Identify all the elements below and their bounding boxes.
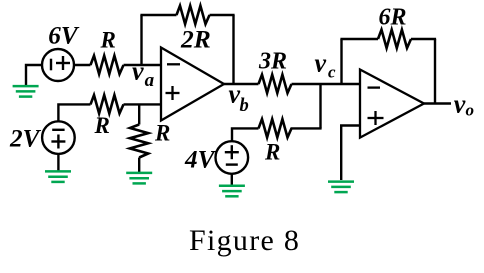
wire: 3R to op-amp U2 inverting input, node vc xyxy=(292,83,361,85)
wire: R1 to op-amp U1 inverting input, node va xyxy=(124,64,162,66)
svg-text:o: o xyxy=(466,101,475,120)
voltage source V2 2V xyxy=(42,121,75,154)
op-amp U1 xyxy=(161,48,224,121)
resistor 3R xyxy=(259,75,292,93)
svg-text:v: v xyxy=(315,49,327,78)
label 2R xyxy=(180,25,211,54)
svg-text:3R: 3R xyxy=(258,49,287,75)
svg-text:R: R xyxy=(154,121,170,146)
wire: junction down to R3 xyxy=(138,104,140,124)
svg-text:v: v xyxy=(454,90,466,119)
wire: V3 bottom to ground xyxy=(231,174,233,185)
ground (V3 4V) xyxy=(219,186,245,197)
wire: V1 to R1 xyxy=(74,64,91,66)
label R (R1) xyxy=(100,28,116,53)
label 3R xyxy=(258,49,287,75)
label 2V xyxy=(9,125,42,152)
svg-text:2R: 2R xyxy=(180,25,211,54)
wire: V2 bottom to ground xyxy=(57,154,59,171)
label 4V xyxy=(184,147,217,174)
wire: 2R feedback left vertical xyxy=(140,15,142,65)
label R (R4) xyxy=(264,140,280,165)
ground (U2 non-inverting) xyxy=(328,182,354,193)
resistor R3 (R, vertical to ground) xyxy=(130,125,148,158)
label 6V xyxy=(48,22,80,49)
resistor R4 (R, 4V branch) xyxy=(259,119,292,137)
resistor 6R (feedback) xyxy=(378,30,411,48)
ground (V2 2V) xyxy=(45,171,71,182)
svg-text:c: c xyxy=(328,63,336,82)
svg-text:R: R xyxy=(264,140,280,165)
wire: U1 output to 3R xyxy=(224,83,259,85)
wire: 6R top left segment xyxy=(340,38,378,40)
ground (6V source) xyxy=(13,86,39,97)
node vc label xyxy=(315,49,337,82)
wire: R4 left segment down to V3 xyxy=(232,128,259,141)
svg-text:R: R xyxy=(100,28,116,53)
wire: 6R feedback left vertical xyxy=(340,39,342,84)
wire: 2R feedback top left segment xyxy=(140,14,176,16)
node vo label xyxy=(454,90,474,120)
wire: 2R feedback top right segment xyxy=(210,14,235,16)
svg-text:6R: 6R xyxy=(379,5,407,31)
wire: U2 output, node vo xyxy=(424,102,451,104)
wire: U2 non-inverting input to ground xyxy=(341,126,360,181)
voltage source V1 6V xyxy=(42,49,74,81)
label R (R2) xyxy=(94,113,110,138)
node vb label xyxy=(229,80,249,117)
svg-text:4V: 4V xyxy=(184,147,217,174)
label R (R3) xyxy=(154,121,170,146)
voltage source V3 4V xyxy=(216,141,249,174)
wire: V2 top to R2 row xyxy=(58,104,90,122)
caption Figure 8 xyxy=(189,224,300,257)
label 6R xyxy=(379,5,407,31)
svg-text:R: R xyxy=(94,113,110,138)
resistor 2R (feedback) xyxy=(177,6,210,24)
op-amp U2 xyxy=(360,70,424,138)
wire: R3 to ground xyxy=(138,158,140,173)
ground (R3) xyxy=(126,173,152,184)
wire: R4 right segment xyxy=(291,127,322,129)
wire: R2 to op-amp U1 non-inverting input xyxy=(124,103,162,105)
wire: 2R feedback right vertical down to vb xyxy=(232,15,234,84)
wire: 6R top right segment xyxy=(411,38,436,40)
svg-text:2V: 2V xyxy=(9,125,42,152)
wire: 6R right vertical down to output xyxy=(434,39,436,104)
svg-text:6V: 6V xyxy=(48,22,80,49)
wire: 6V negative lead to ground xyxy=(26,65,42,85)
svg-text:Figure 8: Figure 8 xyxy=(189,224,300,257)
resistor R2 (R, non-inverting input) xyxy=(91,95,124,113)
svg-text:b: b xyxy=(240,96,249,116)
svg-text:a: a xyxy=(145,70,155,91)
resistor R1 (R, top-left horizontal) xyxy=(91,56,124,74)
node va label xyxy=(132,57,155,92)
wire: vc junction down to R4 row xyxy=(319,84,321,128)
